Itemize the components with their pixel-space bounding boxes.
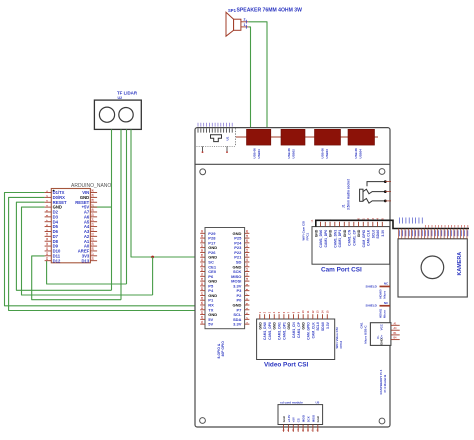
Cam CSI pin CAM1_DP0 — [324, 222, 326, 227]
wire LIDAR pin4 GND to Pi GPIO GND — [131, 129, 200, 257]
GPIO pin P4 lead — [200, 290, 205, 292]
Cam CSI pin CAM1_CP — [353, 222, 355, 227]
svg-text:CAM1_CP: CAM1_CP — [352, 229, 356, 246]
Arduino pin A7 lead — [90, 211, 97, 213]
Video CSI pin CAM1_DN0 — [264, 314, 266, 319]
Arduino pin D0/RX lead — [45, 196, 52, 198]
svg-text:3.5mm Audio socket: 3.5mm Audio socket — [347, 178, 351, 210]
svg-text:GND: GND — [357, 229, 361, 237]
Pi mounting hole bottom-right — [379, 418, 385, 424]
Cam CSI pin CAM_CLK — [367, 222, 369, 227]
GPIO pin GND lead — [200, 247, 205, 249]
svg-text:USB03: USB03 — [325, 149, 329, 159]
GPIO pin GND lead — [200, 294, 205, 296]
USB hub logo symbol — [211, 135, 222, 142]
Pi mounting hole top-right — [379, 169, 385, 175]
GPIO pin 5V lead — [200, 318, 205, 320]
Arduino pin D10 lead — [45, 250, 52, 252]
Cam CSI pin SCL0 — [372, 222, 374, 227]
svg-text:CAM1_DP1: CAM1_DP1 — [338, 230, 342, 248]
GPIO pin GND lead — [200, 314, 205, 316]
Arduino pin A4 lead — [90, 226, 97, 228]
TF LIDAR U2 body — [94, 100, 141, 129]
wire Arduino GND to GND junction — [22, 207, 153, 295]
svg-text:Cam Port CSI: Cam Port CSI — [321, 267, 362, 274]
svg-text:Pi 4 Model B: Pi 4 Model B — [383, 374, 387, 393]
svg-text:J1: J1 — [342, 204, 346, 208]
svg-text:CAM_GPIO: CAM_GPIO — [307, 322, 311, 340]
svg-text:D13: D13 — [82, 258, 90, 263]
Video CSI pin GND — [259, 314, 261, 319]
Video CSI pin CAM1_DN1 — [278, 314, 280, 319]
USB hub lower tick B — [226, 146, 228, 151]
GPIO pin RX lead — [200, 304, 205, 306]
svg-text:5V: 5V — [208, 322, 213, 327]
Arduino pin A6 lead — [90, 216, 97, 218]
Cam CSI pin CAM1_DP1 — [339, 222, 341, 227]
svg-text:USB-06: USB-06 — [287, 148, 291, 159]
GPIO pin P0 lead — [245, 299, 250, 301]
svg-text:3.3V: 3.3V — [326, 321, 330, 329]
Arduino pin RESET lead — [45, 201, 52, 203]
GPIO pin 5V lead — [200, 323, 205, 325]
svg-text:SCL0: SCL0 — [371, 230, 375, 239]
USB-C pins — [391, 324, 400, 326]
USB port USB03 block — [315, 129, 341, 145]
svg-text:SDA0: SDA0 — [321, 322, 325, 331]
Arduino pin A3 lead — [90, 230, 97, 232]
svg-text:Gnd: Gnd — [316, 416, 320, 422]
USB hub lower tick A — [202, 146, 204, 151]
svg-text:3.3V: 3.3V — [381, 229, 385, 237]
Cam CSI pin CAM1_CN — [348, 222, 350, 227]
Arduino pin A1 lead — [90, 240, 97, 242]
Cam CSI pin SDA0 — [377, 222, 379, 227]
sd card pin CS — [297, 425, 299, 432]
camera lens — [421, 256, 444, 279]
GPIO pin SCL lead — [245, 314, 250, 316]
GPIO header J8 body — [205, 228, 245, 329]
svg-text:3.3V: 3.3V — [233, 322, 242, 327]
Video Port CSI connector body — [257, 319, 335, 360]
Arduino pin D4 lead — [45, 221, 52, 223]
svg-text:SPEAKER 76MM 4OHM 3W: SPEAKER 76MM 4OHM 3W — [237, 8, 303, 14]
GPIO pin GND lead — [245, 232, 250, 234]
Arduino pin 3V3 lead — [90, 255, 97, 257]
svg-text:D+: D+ — [380, 334, 384, 338]
Cam CSI pin CAM1_DN1 — [334, 222, 336, 227]
svg-text:SDA0: SDA0 — [376, 230, 380, 239]
GPIO pin GND lead — [245, 304, 250, 306]
junction GND net — [151, 256, 154, 259]
GPIO pin SCK lead — [245, 271, 250, 273]
wire LIDAR pin2 down to bus — [120, 129, 122, 299]
svg-text:Micro USB-C: Micro USB-C — [363, 325, 367, 344]
svg-text:CAM1_DP0: CAM1_DP0 — [268, 322, 272, 340]
GPIO pin P24 lead — [245, 242, 250, 244]
svg-text:GND: GND — [343, 229, 347, 237]
USB port USB04 block — [348, 129, 375, 145]
wire Arduino D0/RX to Pi TX — [9, 197, 201, 310]
GPIO pin TX lead — [200, 309, 205, 311]
Arduino pin D8 lead — [45, 240, 52, 242]
Arduino pin A5 lead — [90, 221, 97, 223]
speaker pin 2 lead — [241, 21, 248, 23]
USB port USB02 block — [281, 129, 305, 145]
svg-text:CAM1_CN: CAM1_CN — [348, 229, 352, 246]
GPIO pin P5 lead — [200, 285, 205, 287]
GPIO pin P28 lead — [200, 237, 205, 239]
audio jack pin dots — [384, 180, 387, 183]
svg-text:CAM1_CN: CAM1_CN — [292, 322, 296, 339]
svg-text:GND: GND — [380, 338, 384, 346]
wire Arduino RESET to LIDAR pin1 bus — [16, 202, 111, 290]
svg-text:GND: GND — [314, 229, 318, 237]
svg-text:+3.3V: +3.3V — [287, 415, 291, 423]
Video CSI pin CAM1_DP0 — [268, 314, 270, 319]
Video CSI pin CAM_CLK — [312, 314, 314, 319]
Video CSI pin GND — [302, 314, 304, 319]
svg-text:VCC: VCC — [380, 323, 384, 330]
svg-text:CAM1_DN1: CAM1_DN1 — [278, 322, 282, 340]
GPIO pin P7 lead — [245, 309, 250, 311]
camera pin labels upper — [398, 218, 400, 224]
svg-text:sd card module: sd card module — [280, 401, 303, 405]
GPIO pin P23 lead — [245, 247, 250, 249]
svg-text:1: 1 — [244, 23, 246, 27]
GPIO pin 3.3V lead — [245, 323, 250, 325]
svg-text:40P GPIO: 40P GPIO — [221, 341, 225, 357]
Arduino pin GND lead — [45, 206, 52, 208]
Arduino pin D5 lead — [45, 226, 52, 228]
Arduino pin D7 lead — [45, 235, 52, 237]
Cam CSI pin CAM1_DN0 — [320, 222, 322, 227]
GPIO pin MOSI lead — [245, 280, 250, 282]
svg-text:SCK: SCK — [306, 415, 310, 422]
GPIO pin SDA lead — [245, 318, 250, 320]
GPIO pin P29 lead — [200, 232, 205, 234]
Video CSI pin CAM1_CP — [297, 314, 299, 319]
USB port USB01 block — [247, 129, 271, 145]
svg-text:SCL0: SCL0 — [316, 322, 320, 331]
audio jack ring contact — [363, 189, 385, 194]
GPIO pin P21 lead — [245, 256, 250, 258]
Cam CSI pin GND — [358, 222, 360, 227]
svg-text:U5: U5 — [316, 401, 320, 405]
GPIO pin MISO lead — [245, 275, 250, 277]
svg-text:Video Port CSI: Video Port CSI — [264, 362, 308, 369]
sd card pin +5V — [292, 425, 294, 432]
TF LIDAR lens left — [99, 107, 114, 122]
Arduino pin RESET lead — [90, 201, 97, 203]
GPIO pin P26 lead — [200, 251, 205, 253]
svg-text:ARDUINO_NANO: ARDUINO_NANO — [71, 183, 111, 189]
Arduino pin A2 lead — [90, 235, 97, 237]
svg-text:CAM_CLK: CAM_CLK — [311, 322, 315, 339]
GPIO pin GND lead — [200, 256, 205, 258]
svg-text:CAM1_CP: CAM1_CP — [297, 321, 301, 338]
Video CSI pin 3.3V — [326, 314, 328, 319]
camera module body — [398, 239, 467, 297]
svg-text:GND: GND — [258, 322, 262, 330]
svg-text:U1: U1 — [226, 136, 230, 140]
svg-text:GND: GND — [302, 322, 306, 330]
GPIO pin P22 lead — [245, 251, 250, 253]
svg-text:USB01: USB01 — [257, 149, 261, 159]
svg-text:USB-06: USB-06 — [354, 148, 358, 159]
wire Arduino +5V to LIDAR 5V — [91, 206, 112, 208]
Video CSI pin CAM_GPIO — [307, 314, 309, 319]
Pi mounting hole bottom-left — [200, 418, 206, 424]
Arduino Nano body — [51, 189, 90, 263]
Arduino pin GND lead — [90, 196, 97, 198]
Video CSI pin GND — [288, 314, 290, 319]
svg-text:CAM_GPIO: CAM_GPIO — [362, 229, 366, 247]
Arduino pin +5V lead — [90, 206, 97, 208]
sd card pin MOSI — [302, 425, 304, 432]
svg-text:FPC1: FPC1 — [306, 233, 310, 241]
USB hub pin ticks — [197, 128, 199, 132]
GPIO pin SC lead — [200, 261, 205, 263]
Cam CSI pin GND — [329, 222, 331, 227]
Arduino pin D13 lead — [90, 260, 97, 262]
GPIO pin CE1 lead — [200, 266, 205, 268]
audio jack sleeve contact — [363, 199, 385, 204]
svg-text:CAM1_DP0: CAM1_DP0 — [324, 230, 328, 248]
svg-text:U2: U2 — [118, 96, 123, 100]
svg-text:CAM1_DN0: CAM1_DN0 — [319, 230, 323, 248]
GPIO pin 3.3V lead — [245, 285, 250, 287]
svg-text:Micro: Micro — [382, 291, 386, 299]
wire LIDAR pin3 down to bus — [126, 129, 128, 284]
wire Cam CSI to camera (ribbon) — [316, 220, 469, 228]
speaker pin 1 lead — [241, 26, 248, 28]
sd card pin Gnd — [283, 425, 285, 432]
Raspberry Pi 4 board outline — [195, 128, 390, 427]
Video CSI pin GND — [273, 314, 275, 319]
GPIO pin P17 lead — [200, 242, 205, 244]
Arduino pin AREF lead — [90, 250, 97, 252]
svg-text:MOSI: MOSI — [302, 415, 306, 423]
sd card pin SCK — [307, 425, 309, 432]
svg-text:Micro: Micro — [382, 310, 386, 318]
wire Arduino D11 to LIDAR pin2 — [32, 256, 121, 300]
Arduino pin D12 lead — [45, 260, 52, 262]
sd card pin Gnd — [317, 425, 319, 432]
svg-text:CAM_CLK: CAM_CLK — [367, 229, 371, 246]
Arduino pin D6 lead — [45, 230, 52, 232]
svg-text:GND: GND — [329, 229, 333, 237]
USB hub dotted lower edge — [197, 145, 236, 147]
svg-text:USB04: USB04 — [359, 149, 363, 159]
wire GND junction branch down — [152, 257, 154, 295]
Cam CSI pin CAM_GPIO — [362, 222, 364, 227]
speaker SP1 symbol — [226, 12, 234, 36]
GPIO pin GND lead — [245, 266, 250, 268]
HDMI0 micro port NC pin — [380, 286, 391, 288]
svg-text:CAM1_DN0: CAM1_DN0 — [263, 322, 267, 340]
Cam Port CSI connector body — [312, 227, 390, 265]
Cam CSI pin GND — [315, 222, 317, 227]
svg-text:GND: GND — [273, 322, 277, 330]
GPIO pin CE0 lead — [200, 271, 205, 273]
sd card pin +3.3V — [287, 425, 289, 432]
sd card module U5 body — [278, 405, 323, 425]
svg-text:2: 2 — [244, 18, 246, 22]
Arduino pin A0 lead — [90, 245, 97, 247]
svg-text:Gnd: Gnd — [282, 416, 286, 422]
wire speaker pin1 to USB port — [248, 27, 250, 128]
GPIO pin P3 lead — [245, 290, 250, 292]
audio jack tip contact — [367, 182, 385, 187]
wire USB bus red line — [236, 136, 378, 138]
GPIO pin P2 lead — [245, 294, 250, 296]
wire Arduino D1/TX to Pi RX — [5, 193, 201, 306]
Pi mounting hole top-left — [200, 169, 206, 175]
svg-text:KAMERA: KAMERA — [457, 252, 463, 276]
svg-text:MISO: MISO — [311, 414, 315, 422]
Video CSI pin SCL0 — [317, 314, 319, 319]
svg-text:+5V: +5V — [292, 417, 296, 422]
Video CSI pin SDA0 — [321, 314, 323, 319]
GPIO pin P25 lead — [245, 237, 250, 239]
svg-text:GND: GND — [287, 322, 291, 330]
Arduino pin D9 lead — [45, 245, 52, 247]
Pi board top section divider — [195, 163, 390, 165]
wire Arduino D12 to LIDAR pin3 — [47, 261, 127, 284]
HDMI1 micro port NC pin — [380, 305, 391, 307]
audio jack plug body — [360, 189, 363, 201]
svg-text:USB-06: USB-06 — [253, 148, 257, 159]
Arduino pin D1/TX lead — [45, 192, 52, 194]
svg-text:CAM1_DN1: CAM1_DN1 — [333, 230, 337, 248]
svg-text:SHIELD: SHIELD — [366, 284, 378, 288]
svg-text:CAM1_DP1: CAM1_DP1 — [282, 322, 286, 340]
svg-text:USB-06: USB-06 — [321, 148, 325, 159]
GPIO pin SD lead — [245, 261, 250, 263]
wire speaker pin2 to USB port — [248, 22, 267, 129]
svg-text:FPC2: FPC2 — [339, 341, 343, 349]
Video CSI pin CAM1_CN — [293, 314, 295, 319]
Video CSI pin CAM1_DP1 — [283, 314, 285, 319]
svg-text:D12: D12 — [53, 258, 61, 263]
USB hub U1 footprint box — [235, 128, 237, 146]
Arduino pin D2 lead — [45, 211, 52, 213]
TF LIDAR lens right — [119, 108, 133, 122]
Arduino pin VIN lead — [90, 192, 97, 194]
wire LIDAR pin1 5V down — [111, 129, 113, 290]
svg-text:TF LIDAR: TF LIDAR — [117, 91, 138, 96]
svg-text:SHIELD: SHIELD — [366, 304, 378, 308]
camera pin ticks — [398, 229, 400, 239]
svg-text:USB02: USB02 — [292, 149, 296, 159]
Cam CSI pin GND — [343, 222, 345, 227]
sd card pin MISO — [312, 425, 314, 432]
Cam CSI pin 3.3V — [381, 222, 383, 227]
GPIO pin P6 lead — [200, 275, 205, 277]
Arduino pin D3 lead — [45, 216, 52, 218]
svg-text:SP1: SP1 — [228, 8, 237, 13]
GPIO pin GND lead — [200, 280, 205, 282]
svg-text:CS: CS — [297, 418, 301, 422]
GPIO pin P1 lead — [200, 299, 205, 301]
USB-C CN1 body — [370, 323, 391, 346]
Arduino pin D11 lead — [45, 255, 52, 257]
